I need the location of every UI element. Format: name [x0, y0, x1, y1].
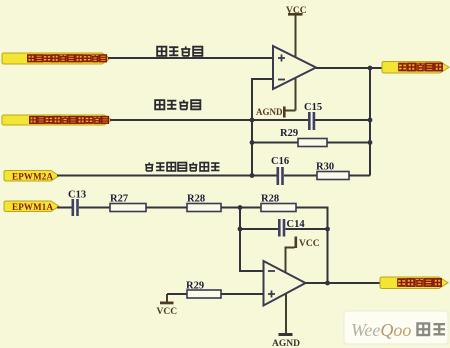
junction node A1 (inverting input net / C15 row) [250, 118, 255, 123]
wire P3 to C16 [57, 175, 277, 177]
port label P1 逆变输出电压反馈信号 [2, 53, 110, 64]
wire R29 to U2 + input [221, 293, 264, 295]
wire R28a to R28b with node B [221, 207, 261, 209]
wire U1 output [316, 67, 382, 69]
AGND symbol U2 [272, 294, 300, 348]
junction node A2 (inverting input net / R29 row) [250, 140, 255, 145]
port label P6 三角波输出 [380, 277, 448, 289]
resistor R27 [110, 194, 146, 212]
svg-text:VCC: VCC [299, 239, 320, 249]
svg-text:VCC: VCC [157, 307, 178, 317]
watermark WeeQoo [344, 311, 448, 344]
port label P3 EPWM2A [4, 171, 59, 182]
svg-text:WeeQoo: WeeQoo [351, 320, 411, 340]
wire U2 output [306, 282, 382, 284]
svg-text:EPWM1A: EPWM1A [12, 202, 53, 212]
wire node A to R29 [252, 142, 298, 144]
svg-text:AGND: AGND [272, 339, 300, 348]
wire V2 feedback vertical [369, 68, 371, 176]
capacitor C15 [304, 102, 322, 130]
text 产生正弦波信号 [145, 162, 219, 171]
wire R28b to V3 corner [296, 208, 328, 284]
svg-text:C15: C15 [304, 102, 322, 113]
resistor R28 a [187, 194, 221, 212]
wire C14 row [240, 228, 328, 230]
VCC symbol U2 [286, 237, 320, 273]
capacitor C13 [68, 190, 86, 217]
wire VCC to R29 bottom [167, 293, 187, 295]
wire C15 to V2 [315, 119, 370, 121]
junction node F3 (feedback / C14 row) [325, 227, 330, 232]
op-amp U2 [264, 261, 306, 306]
capacitor C14 [278, 219, 305, 237]
wire R29 to V2 [327, 142, 370, 144]
wire C13 to R27 [79, 207, 110, 209]
junction node B1 (R28 junction / U2 inverting net) [238, 205, 243, 210]
wire P1 to U1 + input [108, 57, 273, 59]
svg-text:C16: C16 [271, 156, 289, 167]
junction node A3 (inverting input net / C16 row) [250, 173, 255, 178]
resistor R29 bottom [186, 281, 221, 299]
wire P2 to node A [110, 119, 308, 121]
resistor R29 top [280, 128, 327, 147]
wire node B vertical to U2 - input [240, 208, 264, 272]
capacitor C16 [271, 156, 289, 185]
junction node F2 (feedback / R29 row) [368, 140, 373, 145]
junction node F1 (feedback / C15 row) [368, 118, 373, 123]
svg-text:C13: C13 [68, 190, 86, 201]
svg-text:EPWM2A: EPWM2A [12, 171, 53, 181]
VCC symbol top [286, 6, 307, 57]
junction node OUT2 (U2 output / feedback) [325, 281, 330, 286]
wire R27 to R28a [146, 207, 187, 209]
port label P2 逆变输出电压反馈信号 [2, 115, 112, 125]
wire P4 to C13 [57, 207, 72, 209]
junction node OUT1 (U1 output / feedback) [368, 66, 373, 71]
op-amp U1 [273, 46, 316, 89]
resistor R28 b feedback [261, 194, 296, 212]
text 分压处理 #1 [157, 46, 202, 55]
VCC symbol bottom-left [157, 294, 178, 317]
svg-text:AGND: AGND [256, 107, 283, 117]
wire C16 to R30 [284, 175, 317, 177]
port label P5 正弦波输出 [382, 62, 449, 74]
AGND symbol U1 [256, 78, 296, 118]
wire node A vertical to U1 - input [252, 79, 273, 176]
junction node B2 (U2 inverting net / C14 row) [238, 227, 243, 232]
text 分压处理 #2 [155, 100, 200, 109]
wire R30 to V2 [349, 175, 370, 177]
svg-text:R29: R29 [280, 128, 298, 139]
port label P4 EPWM1A [4, 201, 59, 212]
resistor R30 [316, 162, 349, 180]
